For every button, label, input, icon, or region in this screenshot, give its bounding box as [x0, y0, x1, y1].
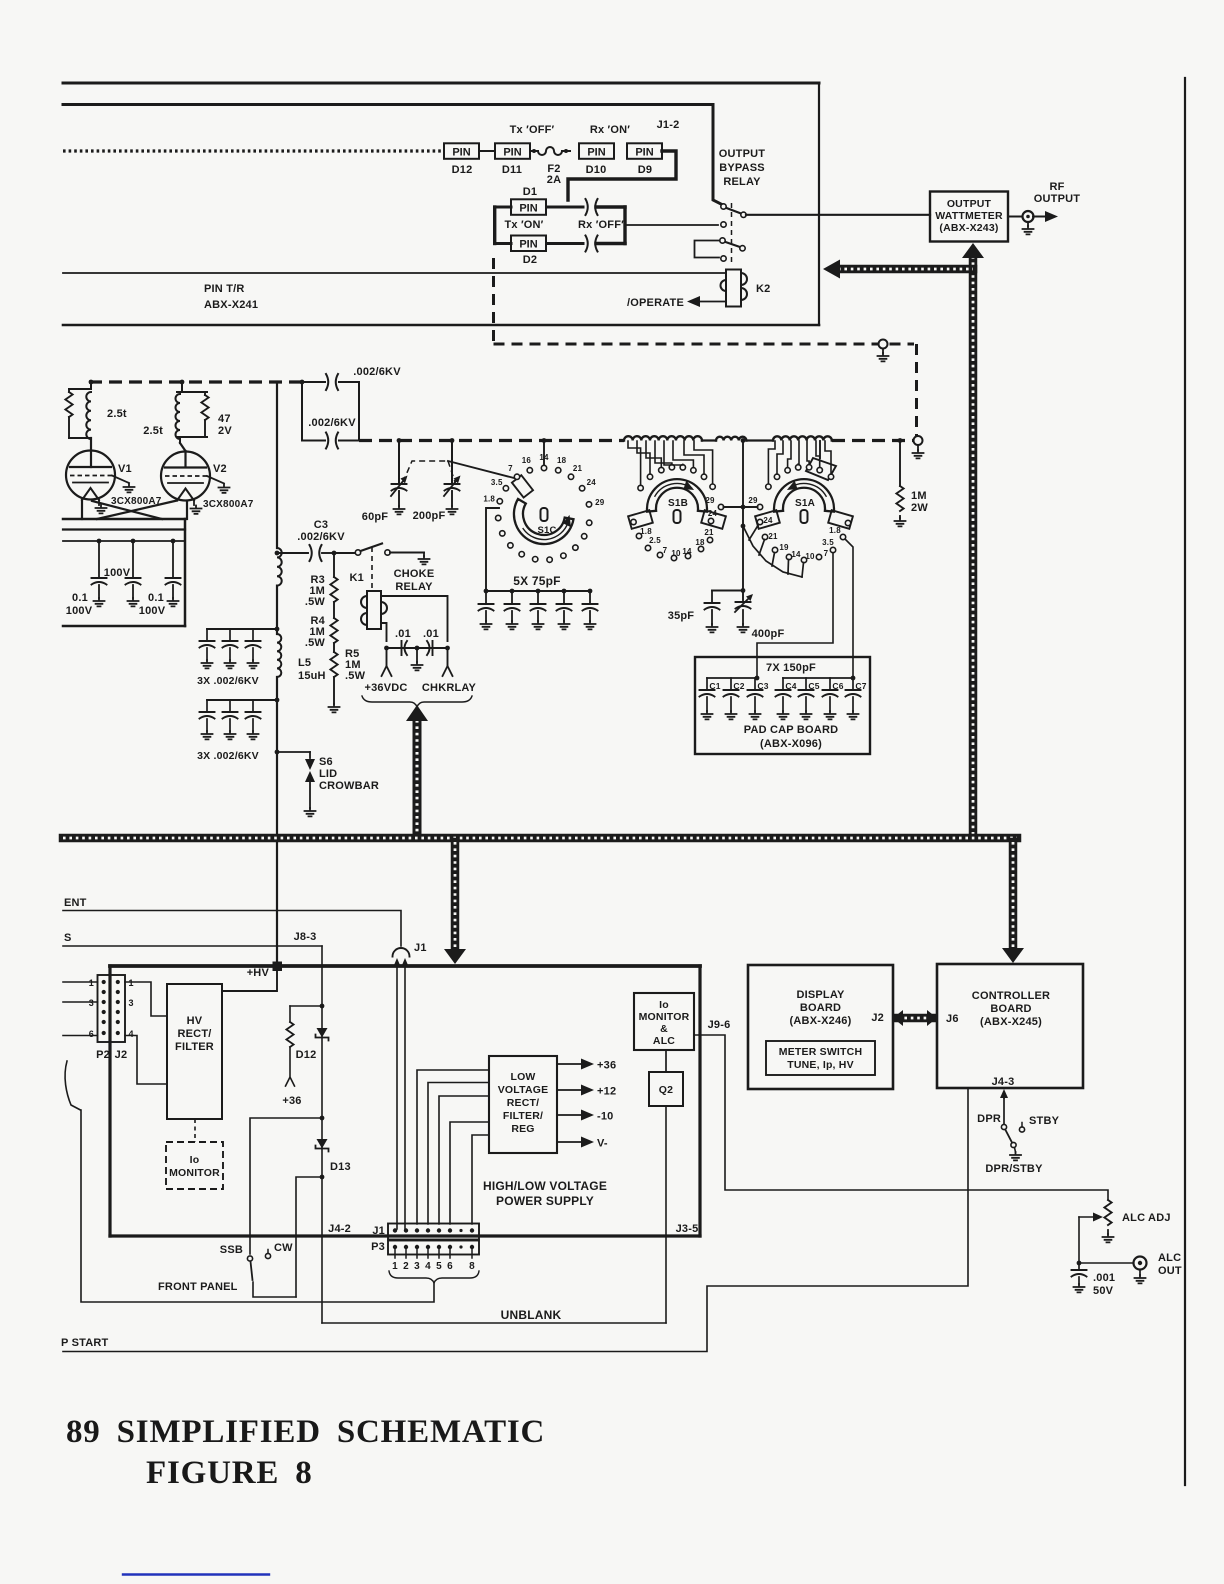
- box grid bypass top: [63, 518, 185, 521]
- svg-text:19: 19: [779, 543, 789, 552]
- svg-text:.5W: .5W: [305, 637, 326, 649]
- diode D2 PIN: [511, 236, 546, 252]
- node bias junction a: [320, 1004, 325, 1009]
- switch S1A rotor arrow: [789, 483, 826, 496]
- resistor R3: [333, 553, 335, 577]
- switch S1B rotor ring: [647, 479, 707, 511]
- wire top input line: [63, 82, 819, 85]
- svg-text:J1-2: J1-2: [657, 119, 680, 131]
- svg-text:REG: REG: [511, 1123, 534, 1135]
- svg-text:OUT: OUT: [1158, 1265, 1182, 1277]
- feedthrough capacitor on shield: [879, 340, 888, 349]
- svg-text:HIGH/LOW VOLTAGE: HIGH/LOW VOLTAGE: [483, 1179, 607, 1193]
- svg-text:S: S: [64, 932, 72, 944]
- box grid bypass bottom: [63, 625, 185, 628]
- diode D10 PIN: [579, 143, 614, 159]
- svg-text:PAD CAP BOARD: PAD CAP BOARD: [744, 724, 838, 736]
- svg-text:POWER SUPPLY: POWER SUPPLY: [496, 1194, 594, 1208]
- svg-text:ALC ADJ: ALC ADJ: [1122, 1212, 1171, 1224]
- relay K2 contact b: [721, 222, 726, 227]
- connector J1 pins: [393, 1228, 397, 1232]
- resistor bias bleed: [290, 1005, 322, 1007]
- svg-text:J3-5: J3-5: [676, 1223, 699, 1235]
- wire switch common: [253, 1282, 296, 1297]
- svg-text:L5: L5: [298, 657, 311, 669]
- tube V2 cathode line: [168, 482, 203, 484]
- svg-text:SSB: SSB: [220, 1244, 243, 1256]
- svg-text:1: 1: [129, 978, 134, 988]
- svg-text:RF: RF: [1049, 181, 1064, 193]
- svg-text:3X .002/6KV: 3X .002/6KV: [197, 750, 259, 762]
- svg-text:D12: D12: [296, 1049, 317, 1061]
- wire 5X75pF feed from S1C: [486, 508, 499, 591]
- inductor plate choke upper: [277, 548, 282, 586]
- wire P2 pin6 stub: [63, 1035, 98, 1037]
- svg-text:.01: .01: [423, 628, 439, 640]
- wire J8-3 vertical: [321, 946, 323, 1323]
- svg-text:D11: D11: [502, 164, 522, 176]
- wire 35pF branch: [712, 590, 743, 592]
- arrow into J4-3: [1003, 1093, 1005, 1098]
- coax shield wattmeter drop: [969, 256, 978, 836]
- power supply box right edge: [698, 966, 701, 1236]
- coax shield branch left: [838, 265, 973, 274]
- wire gang dashed linkage: [403, 461, 448, 482]
- svg-text:Q2: Q2: [659, 1084, 673, 1096]
- wire tank mid a: [702, 439, 716, 441]
- connector P2 shell: [98, 975, 111, 1042]
- arrow output +36: [557, 1063, 585, 1065]
- capacitor 75pF #3: [536, 589, 541, 594]
- svg-text:Tx ′ON′: Tx ′ON′: [504, 219, 543, 231]
- brace under K1 group: [362, 696, 472, 707]
- wire S1A 3.5 contact to pad board: [757, 553, 833, 678]
- arrow /OPERATE: [687, 296, 700, 307]
- tube V2 heater: [177, 489, 194, 501]
- svg-text:(ABX-X096): (ABX-X096): [760, 738, 822, 750]
- svg-text:3: 3: [414, 1261, 420, 1272]
- svg-text:5: 5: [436, 1261, 442, 1272]
- wire plate feed to HV: [276, 677, 278, 961]
- svg-text:2.5t: 2.5t: [143, 425, 163, 437]
- svg-text:3: 3: [89, 998, 94, 1008]
- svg-text:RECT/: RECT/: [507, 1097, 540, 1109]
- wire junction down: [742, 507, 744, 600]
- wire coupling loop left: [301, 382, 303, 441]
- svg-text:RECT/: RECT/: [178, 1028, 212, 1040]
- ground RF jack: [1027, 222, 1029, 226]
- wire front panel harness: [81, 1110, 434, 1302]
- svg-text:2V: 2V: [218, 425, 232, 437]
- svg-text:BOARD: BOARD: [990, 1003, 1031, 1015]
- capacitor C6 150pF: [829, 678, 831, 690]
- svg-text:Io: Io: [659, 999, 669, 1011]
- connector ALC OUT jack: [1134, 1257, 1147, 1270]
- switch S1A top contacts and coil taps: [766, 484, 771, 489]
- tube V1 anode: [90, 438, 92, 467]
- wire dashed shield horizontal: [494, 343, 915, 346]
- diode D12 PIN: [444, 143, 479, 159]
- wire to CW common: [296, 1177, 322, 1297]
- svg-text:15uH: 15uH: [298, 670, 326, 682]
- wire J1 pin1 to P3: [396, 965, 398, 1229]
- svg-text:3CX800A7: 3CX800A7: [203, 499, 254, 510]
- svg-text:3: 3: [129, 998, 134, 1008]
- svg-text:2.5: 2.5: [649, 536, 661, 545]
- capacitor C1 150pF: [706, 678, 708, 690]
- svg-text:4: 4: [129, 1029, 134, 1039]
- relay K1 linkage dashed: [371, 547, 373, 590]
- diode D13 zener: [317, 1139, 328, 1149]
- capacitor 75pF #5: [588, 589, 593, 594]
- svg-text:+12: +12: [597, 1086, 616, 1098]
- svg-text:VOLTAGE: VOLTAGE: [498, 1084, 549, 1096]
- svg-text:V2: V2: [213, 463, 227, 475]
- connector RF output jack: [1023, 211, 1034, 222]
- capacitor 35pF: [711, 591, 713, 604]
- wire plate feed vertical: [276, 382, 278, 548]
- svg-text:50V: 50V: [1093, 1285, 1114, 1297]
- node Tx-ON branch left bus: [493, 207, 496, 244]
- switch S1A slot: [801, 510, 808, 523]
- svg-text:18: 18: [557, 456, 567, 465]
- svg-text:Io: Io: [190, 1154, 200, 1166]
- capacitor 75pF #1: [484, 589, 489, 594]
- svg-text:&: &: [660, 1023, 668, 1035]
- capacitor 200pF variable: [451, 441, 453, 485]
- svg-text:14: 14: [682, 547, 692, 556]
- svg-text:ALC: ALC: [653, 1035, 675, 1047]
- resistor parasitic V2 47 2V: [204, 392, 206, 395]
- svg-text:21: 21: [768, 532, 778, 541]
- resistor R4: [333, 602, 335, 618]
- wire dashed shield down to tank: [915, 344, 918, 437]
- svg-text:C5: C5: [808, 681, 819, 691]
- wire HV rect output: [222, 971, 277, 991]
- relay K2 contact d: [721, 256, 726, 261]
- capacitor 75pF #2: [510, 589, 515, 594]
- svg-text:DPR: DPR: [977, 1113, 1001, 1125]
- capacitor 400pF variable: [736, 602, 751, 609]
- svg-text:ALC: ALC: [1158, 1252, 1181, 1264]
- svg-text:.01: .01: [395, 628, 411, 640]
- capacitor .002/6KV lower: [302, 440, 325, 442]
- svg-text:7: 7: [824, 549, 829, 558]
- resistor 1M 2W: [898, 438, 903, 443]
- svg-text:35pF: 35pF: [668, 610, 695, 622]
- svg-text:FRONT PANEL: FRONT PANEL: [158, 1281, 238, 1293]
- wire D2 branch: [495, 242, 511, 245]
- wire to S6: [275, 750, 280, 755]
- wire S1A 1.8 contact to pad board: [845, 539, 853, 678]
- svg-text:V1: V1: [118, 463, 132, 475]
- tube V1 heater: [82, 488, 99, 500]
- inductor tank coil section 3: [773, 436, 832, 440]
- svg-text:CW: CW: [274, 1242, 293, 1254]
- capacitor .002/6KV bank1 #1: [206, 629, 208, 641]
- wire cap bank1 bus: [207, 628, 277, 630]
- svg-text:7: 7: [508, 464, 513, 473]
- svg-text:D9: D9: [638, 164, 652, 176]
- svg-text:Tx ′OFF′: Tx ′OFF′: [510, 124, 555, 136]
- ground cap row: [416, 648, 418, 662]
- svg-text:DISPLAY: DISPLAY: [796, 989, 845, 1001]
- capacitor C2 150pF: [730, 678, 732, 690]
- wire K1 coil top to right: [381, 596, 448, 641]
- wire S1A shorting fan: [743, 526, 802, 577]
- wire dashed tank line left: [359, 439, 624, 442]
- wire J2 pin4 to HV rect: [125, 1036, 167, 1085]
- svg-text:J6: J6: [946, 1013, 959, 1025]
- wire: [479, 150, 495, 152]
- svg-text:J2: J2: [871, 1012, 884, 1024]
- wire P2 pin3 stub: [63, 1001, 98, 1003]
- wire pin5 to LV box: [439, 1096, 489, 1224]
- svg-text:24: 24: [708, 509, 718, 518]
- relay K2 blade b end: [740, 246, 745, 251]
- arrow RF output: [1033, 216, 1049, 218]
- connector CHKRLAY stub: [447, 648, 449, 666]
- wire pad bus left: [707, 677, 757, 679]
- wire cap row bus: [387, 647, 448, 649]
- svg-text:OUTPUT: OUTPUT: [719, 148, 766, 160]
- capacitor .002/6KV bank2 #2: [229, 700, 231, 712]
- capacitor C7 150pF: [852, 678, 854, 690]
- svg-text:0.1: 0.1: [72, 592, 88, 604]
- svg-text:(ABX-X246): (ABX-X246): [790, 1015, 852, 1027]
- switch S1C slot: [541, 508, 548, 521]
- svg-text:14: 14: [539, 453, 549, 462]
- capacitor C3 150pF: [754, 678, 756, 690]
- arrow coax left: [823, 260, 840, 279]
- node bias junction c: [320, 1175, 325, 1180]
- wire V2 cathode down: [97, 501, 177, 520]
- svg-text:CONTROLLER: CONTROLLER: [972, 990, 1050, 1002]
- block Q2: [649, 1072, 683, 1106]
- svg-text:60pF: 60pF: [362, 511, 389, 523]
- svg-text:1.8: 1.8: [640, 527, 652, 536]
- svg-text:24: 24: [587, 478, 597, 487]
- diode D9 PIN: [627, 143, 662, 159]
- wire J1 pin2 to P3: [404, 965, 406, 1229]
- capacitor .002/6KV bank1 #3: [252, 629, 254, 641]
- wire controller to amp start: [63, 1088, 968, 1352]
- capacitor .01 right: [427, 641, 433, 655]
- diode D11 PIN: [495, 143, 530, 159]
- wire PIN output to relay contact: [625, 224, 718, 226]
- svg-text:/OPERATE: /OPERATE: [627, 297, 684, 309]
- wire P3 pin stubs: [394, 1247, 396, 1258]
- tube V2 grid: [165, 475, 207, 477]
- wire cap bank2 bus: [207, 699, 277, 701]
- svg-text:S1C: S1C: [537, 525, 556, 536]
- wire filament sense: [63, 911, 401, 947]
- ground feedthrough: [882, 349, 884, 354]
- svg-text:RELAY: RELAY: [723, 176, 761, 188]
- node suppressor V2 tap: [180, 380, 185, 385]
- diode D12 zener: [317, 1028, 328, 1038]
- svg-text:+36: +36: [597, 1060, 616, 1072]
- coax shield chassis bus: [63, 834, 1017, 843]
- wire tank mid b: [747, 439, 774, 441]
- potentiometer ALC ADJ: [1104, 1200, 1111, 1225]
- svg-text:FIGURE 8: FIGURE 8: [146, 1455, 313, 1491]
- svg-text:OUTPUT: OUTPUT: [947, 198, 992, 210]
- svg-text:6: 6: [89, 1029, 94, 1039]
- capacitor .002/6KV upper: [302, 381, 325, 383]
- svg-text:S1B: S1B: [668, 498, 688, 509]
- svg-text:RELAY: RELAY: [395, 581, 433, 593]
- svg-text:UNBLANK: UNBLANK: [501, 1308, 562, 1322]
- switch S1A wiper flag: [819, 441, 821, 458]
- wire to SSB contact: [250, 1118, 322, 1254]
- switch S1C rotor arrow: [523, 522, 568, 540]
- block DISPLAY BOARD ABX-X246: [748, 965, 893, 1089]
- wire +HV bus power box top: [110, 964, 700, 968]
- connector J1 pin arrows: [393, 958, 401, 967]
- svg-text:14: 14: [791, 550, 801, 559]
- PIN T/R box right edge: [818, 83, 820, 325]
- inductor tank coil section 1: [624, 436, 702, 440]
- box grid bypass inner line: [63, 528, 185, 530]
- connector P3 row: [388, 1241, 479, 1255]
- switch S1B slot: [674, 510, 681, 523]
- svg-text:18: 18: [695, 538, 705, 547]
- svg-text:400pF: 400pF: [752, 628, 785, 640]
- node bias junction b: [320, 1116, 325, 1121]
- switch S1B left wing: [628, 510, 653, 529]
- brace front panel cable: [65, 1061, 80, 1110]
- tube V1 envelope: [66, 451, 115, 500]
- switch S1B rotor arrow: [655, 483, 692, 496]
- svg-text:-10: -10: [597, 1111, 614, 1123]
- wire pin8 to LV box: [472, 1135, 489, 1224]
- switch S1A left wing: [755, 510, 780, 529]
- svg-text:0.1: 0.1: [148, 592, 164, 604]
- svg-text:C3: C3: [314, 519, 328, 531]
- svg-text:J4-2: J4-2: [328, 1223, 351, 1235]
- svg-text:.002/6KV: .002/6KV: [308, 417, 356, 429]
- svg-text:47: 47: [218, 413, 231, 425]
- svg-text:21: 21: [573, 464, 583, 473]
- svg-text:ENT: ENT: [64, 897, 87, 909]
- svg-text:16: 16: [522, 456, 532, 465]
- wire dashed to Io monitor: [194, 1119, 196, 1142]
- block LOW VOLTAGE RECT/FILTER/REG: [489, 1056, 557, 1153]
- box grid bypass right: [184, 519, 187, 626]
- relay K2 blade b: [726, 242, 741, 247]
- svg-text:PIN T/R: PIN T/R: [204, 283, 245, 295]
- svg-text:ABX-X241: ABX-X241: [204, 299, 258, 311]
- svg-text:(ABX-X245): (ABX-X245): [980, 1016, 1042, 1028]
- switch S1B bottom contacts: [631, 519, 636, 524]
- capacitor D1 branch: [586, 199, 598, 215]
- svg-text:BOARD: BOARD: [800, 1002, 841, 1014]
- blue underline mark: [123, 1573, 269, 1575]
- svg-text:24: 24: [763, 516, 773, 525]
- wire coil to wiper junction: [741, 438, 746, 443]
- wire to wattmeter: [746, 214, 930, 216]
- block OUTPUT WATTMETER ABX-X243: [930, 192, 1008, 242]
- svg-text:C7: C7: [855, 681, 866, 691]
- wire dashed tank right: [832, 439, 913, 442]
- svg-text:K2: K2: [756, 283, 770, 295]
- svg-text:10: 10: [671, 549, 681, 558]
- block PAD CAP BOARD ABX-X096: [695, 657, 870, 754]
- wire dashed shield from PIN box: [492, 258, 495, 344]
- switch blade front panel: [251, 1262, 253, 1281]
- capacitor .001 50V: [1078, 1263, 1080, 1270]
- wire D1 branch: [495, 206, 511, 209]
- relay K2 contact c: [720, 238, 725, 243]
- arrow output -10: [557, 1114, 585, 1116]
- power supply box bottom J4-2 bus: [110, 1234, 700, 1237]
- switch S1C wiper wing: [512, 475, 533, 497]
- wire thick elbow from D9: [568, 151, 676, 200]
- svg-text:K1: K1: [350, 572, 364, 584]
- connector +36VDC stub: [386, 648, 388, 666]
- resistor R5: [333, 643, 335, 652]
- capacitor .002/6KV bank1 #2: [229, 629, 231, 641]
- relay K2 coil: [726, 270, 741, 307]
- capacitor .002/6KV bank2 #3: [252, 700, 254, 712]
- inductor tank coil section 2: [716, 437, 746, 441]
- coax shield drop to controller: [1009, 842, 1018, 949]
- switch DPR contact: [1001, 1124, 1006, 1129]
- page border right: [1184, 78, 1186, 1485]
- svg-text:.002/6KV: .002/6KV: [297, 531, 345, 543]
- svg-text:6: 6: [447, 1261, 453, 1272]
- svg-text:FILTER/: FILTER/: [503, 1110, 543, 1122]
- wire J2 pin1 to HV rect: [125, 982, 167, 1016]
- diode D1 PIN: [511, 199, 546, 215]
- relay K1 contact right: [385, 550, 390, 555]
- arrow output V-: [557, 1141, 585, 1143]
- svg-text:J1: J1: [414, 942, 427, 954]
- svg-text:1: 1: [392, 1261, 398, 1272]
- wire S1C feed from tank: [542, 438, 547, 443]
- svg-text:D10: D10: [586, 164, 607, 176]
- svg-text:2W: 2W: [911, 502, 928, 514]
- connector P3 pins: [393, 1245, 397, 1249]
- coax shield drop to power supply: [451, 842, 460, 950]
- wire to right bus: [596, 205, 625, 208]
- PIN T/R box bottom edge: [63, 324, 819, 327]
- connector J2 shell: [111, 975, 126, 1042]
- wire dotted RF line: [63, 149, 444, 152]
- capacitor .002/6KV bank2 #1: [206, 700, 208, 712]
- svg-text:7: 7: [663, 546, 668, 555]
- connector J1 row: [388, 1224, 479, 1240]
- svg-text:(ABX-X243): (ABX-X243): [939, 222, 998, 234]
- svg-text:.002/6KV: .002/6KV: [353, 366, 401, 378]
- relay K1 contact left: [355, 550, 360, 555]
- wire UNBLANK: [322, 1322, 666, 1324]
- capacitor 75pF #4: [562, 589, 567, 594]
- svg-text:.5W: .5W: [345, 670, 366, 682]
- svg-text:Rx ′OFF′: Rx ′OFF′: [578, 219, 624, 231]
- inductor parasitic V2 2.5t: [177, 391, 207, 393]
- arrow coax up into wattmeter: [962, 243, 984, 258]
- capacitor 0.1 100V c: [171, 539, 176, 544]
- wire relay jumper U: [695, 241, 720, 258]
- wire dashed plate line: [89, 380, 302, 383]
- svg-text:C3: C3: [757, 681, 768, 691]
- resistor parasitic V1: [69, 388, 91, 390]
- svg-text:LOW: LOW: [510, 1071, 535, 1083]
- svg-text:.001: .001: [1093, 1272, 1115, 1284]
- svg-text:S1A: S1A: [795, 498, 815, 509]
